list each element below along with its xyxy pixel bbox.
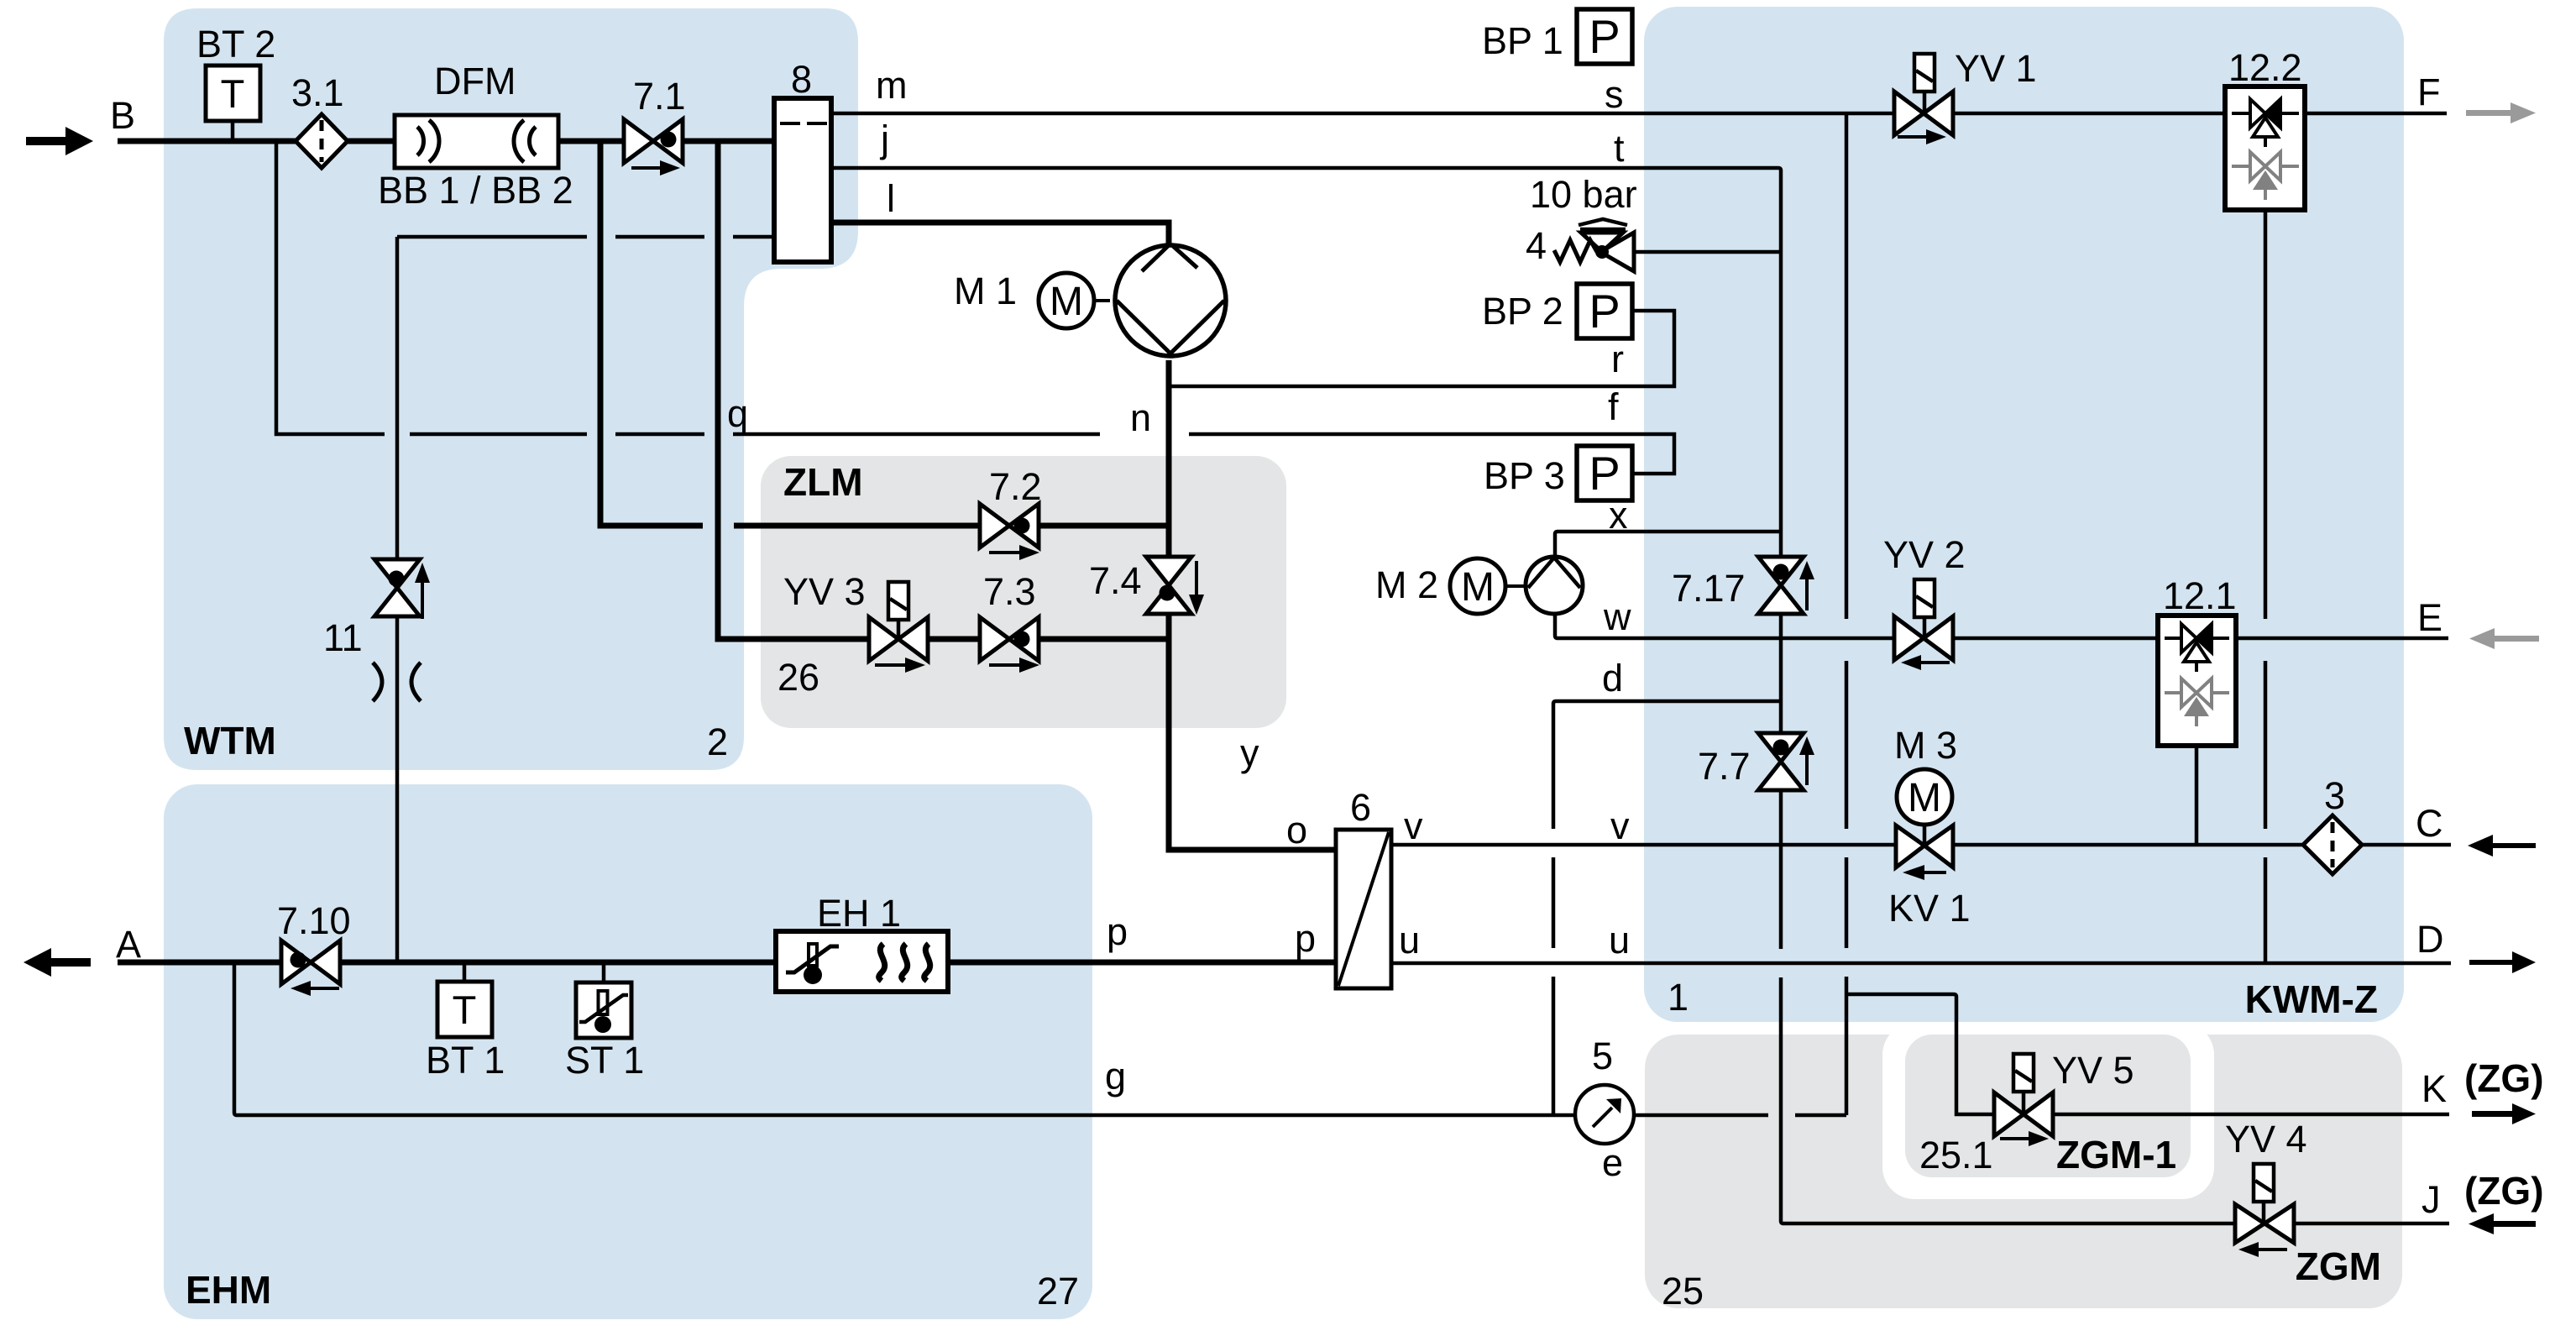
svg-text:7.17: 7.17 (1672, 567, 1746, 610)
wire r line pump tap to BP2 (1169, 311, 1674, 386)
svg-text:EH 1: EH 1 (817, 892, 901, 935)
label K (2422, 1067, 2447, 1110)
svg-text:WTM: WTM (184, 719, 276, 762)
wire x loop top line (pump M2 to t-branch) (1555, 532, 1781, 558)
label r (1611, 338, 1624, 380)
svg-text:y: y (1240, 731, 1259, 774)
label 25 (1662, 1270, 1704, 1312)
svg-text:F: F (2417, 71, 2441, 113)
svg-text:q: q (727, 392, 748, 435)
label ST 1 (565, 1039, 644, 1082)
valve 7.7 (1758, 733, 1814, 790)
svg-text:BP 3: BP 3 (1484, 454, 1565, 497)
wire 12.2 stem down to D line (2264, 210, 2268, 963)
wire vertical branch after 7.1 (thick) with corner to YV3 line (718, 141, 1169, 639)
label u right (1609, 919, 1630, 961)
solenoid valve YV 4 (2235, 1164, 2294, 1257)
label q (727, 392, 748, 435)
wire d line (loop to 7.7) (1556, 699, 1781, 704)
label 11 (323, 616, 363, 659)
label p (1295, 917, 1316, 960)
wire w-E line (pump M2 bottom to E) (1555, 616, 2448, 638)
label YV 3 (783, 570, 866, 613)
port arrow J (2469, 1213, 2536, 1234)
svg-text:T: T (453, 988, 477, 1032)
svg-text:BP 2: BP 2 (1482, 290, 1563, 333)
label M 3 (1894, 724, 1957, 767)
label p left (1107, 910, 1128, 953)
module region ZLM (gray) (761, 456, 1286, 728)
svg-text:K: K (2422, 1067, 2447, 1110)
valve 7.2 (980, 504, 1039, 560)
wire vessel left tap at y282 (397, 235, 774, 239)
svg-text:M 3: M 3 (1894, 724, 1957, 767)
wire ST1 stem (602, 962, 606, 982)
temperature sensor BT 2 (206, 65, 260, 121)
label BP 3 (1484, 454, 1565, 497)
svg-text:B: B (110, 94, 135, 137)
relief valve 4 (10 bar) (1554, 219, 1634, 271)
wire BT2 stem (231, 121, 235, 141)
svg-text:BP 1: BP 1 (1482, 19, 1563, 62)
module region ZGM-1 white moat (1882, 1023, 2214, 1199)
label ZGM (2296, 1244, 2381, 1288)
svg-text:(ZG): (ZG) (2464, 1169, 2544, 1213)
svg-text:ZGM: ZGM (2296, 1244, 2381, 1288)
svg-text:j: j (879, 118, 889, 160)
wire vertical x2121 lower segments to corner J (1781, 977, 2449, 1223)
svg-text:ZLM: ZLM (783, 460, 863, 504)
label d (1602, 657, 1623, 699)
label g (1105, 1055, 1126, 1098)
label 3.1 (291, 71, 344, 114)
valve 7.4 (1146, 557, 1204, 615)
svg-text:DFM: DFM (434, 60, 516, 102)
label 5 (1592, 1035, 1613, 1077)
label YV 4 (2225, 1118, 2307, 1160)
svg-text:7.2: 7.2 (989, 465, 1042, 508)
wire pressure tap q-n-f from main line to BP3 (276, 141, 1674, 474)
temperature sensor ST 1 (576, 982, 631, 1038)
svg-text:n: n (1130, 396, 1151, 439)
svg-text:t: t (1614, 127, 1625, 170)
label o (1286, 809, 1307, 851)
label 1 (1668, 976, 1689, 1019)
filter 3 (2303, 815, 2362, 874)
label DFM (434, 60, 516, 102)
svg-text:v: v (1610, 804, 1630, 847)
svg-text:M 2: M 2 (1375, 563, 1438, 606)
wire m-s-F line (vessel top to F) (831, 112, 2447, 116)
svg-text:YV 5: YV 5 (2052, 1049, 2134, 1092)
label ZG at K (2464, 1056, 2544, 1100)
wire step from x2199 over to YV5 and K (1846, 994, 2449, 1114)
svg-text:m: m (876, 64, 908, 107)
svg-text:BT 1: BT 1 (426, 1039, 505, 1082)
valve 7.1 (624, 119, 683, 176)
svg-text:l: l (887, 177, 895, 220)
port arrow A (24, 948, 91, 977)
module region ZGM (gray) (1645, 1035, 2402, 1308)
svg-text:BB 1 / BB 2: BB 1 / BB 2 (378, 169, 573, 212)
wire u-D line (HX to D) (1391, 961, 2451, 966)
svg-text:BT 2: BT 2 (196, 23, 275, 65)
svg-text:7.7: 7.7 (1698, 745, 1751, 788)
svg-text:2: 2 (707, 720, 728, 763)
port arrow F (gray) (2466, 102, 2536, 123)
svg-text:11: 11 (323, 616, 363, 659)
valve 11 (374, 559, 430, 619)
svg-text:7.4: 7.4 (1089, 559, 1142, 602)
svg-text:M: M (1461, 565, 1495, 610)
svg-text:u: u (1399, 919, 1420, 961)
valve 7.3 (980, 617, 1039, 673)
svg-text:d: d (1602, 657, 1623, 699)
svg-text:v: v (1404, 804, 1423, 847)
pressure sensor BP 1 (1577, 9, 1632, 64)
label 7.4 (1089, 559, 1142, 602)
label B (110, 94, 135, 137)
label e (1602, 1141, 1623, 1184)
label 3 (2324, 774, 2345, 817)
svg-text:25: 25 (1662, 1270, 1704, 1312)
svg-text:YV 2: YV 2 (1883, 533, 1966, 576)
label KWM-Z (2245, 977, 2378, 1021)
svg-text:M: M (1050, 280, 1083, 324)
svg-text:12.1: 12.1 (2163, 574, 2237, 617)
label y (1240, 731, 1259, 774)
label YV 2 (1883, 533, 1966, 576)
svg-text:KV 1: KV 1 (1888, 887, 1971, 930)
svg-text:YV 1: YV 1 (1955, 47, 2037, 90)
label EHM (186, 1268, 271, 1312)
svg-text:1: 1 (1668, 976, 1689, 1019)
pump M 2 (1526, 557, 1583, 614)
svg-text:J: J (2422, 1178, 2441, 1221)
pressure sensor BP 3 (1577, 446, 1632, 500)
label J (2422, 1178, 2441, 1221)
svg-text:ST 1: ST 1 (565, 1039, 644, 1082)
port arrow C (2468, 835, 2536, 857)
label n (1130, 396, 1151, 439)
label A (116, 923, 141, 966)
label 7.2 (989, 465, 1042, 508)
wire BT1 stem (463, 962, 467, 982)
label WTM (184, 719, 276, 762)
label M 1 (954, 270, 1017, 312)
svg-text:3: 3 (2324, 774, 2345, 817)
pressure sensor BP 2 (1577, 284, 1632, 338)
solenoid valve YV 5 (1994, 1054, 2053, 1146)
label v right (1610, 804, 1630, 847)
label f (1608, 385, 1619, 428)
label BP 1 (1482, 19, 1563, 62)
wire main line B (thick) (118, 139, 774, 144)
wire g-e line (EHM drain to gauge 5) (234, 962, 1846, 1115)
svg-text:r: r (1611, 338, 1624, 380)
label YV 1 (1955, 47, 2037, 90)
label v left (1404, 804, 1423, 847)
label 7.10 (277, 899, 351, 942)
label 12.2 (2228, 46, 2302, 89)
solenoid valve YV 2 (1894, 579, 1953, 670)
svg-text:M: M (1908, 776, 1941, 820)
svg-text:w: w (1603, 595, 1631, 638)
svg-text:YV 4: YV 4 (2225, 1118, 2307, 1160)
label ZG at J (2464, 1169, 2544, 1213)
svg-text:12.2: 12.2 (2228, 46, 2302, 89)
svg-text:f: f (1608, 385, 1619, 428)
label 8 (791, 58, 812, 101)
label 7.17 (1672, 567, 1746, 610)
label 7.1 (633, 75, 686, 118)
motor M 2 (1450, 558, 1527, 614)
svg-text:E: E (2417, 596, 2442, 639)
label D (2416, 918, 2444, 961)
label BT 2 (196, 23, 275, 65)
heat exchanger 6 (1336, 830, 1391, 988)
module region ZGM-1 (gray) (1905, 1035, 2191, 1177)
label BP 2 (1482, 290, 1563, 333)
port arrow B (26, 127, 93, 155)
label 7.3 (983, 570, 1036, 613)
svg-text:YV 3: YV 3 (783, 570, 866, 613)
label M 2 (1375, 563, 1438, 606)
label x (1609, 494, 1628, 537)
module region KWM-Z (blue) (1644, 7, 2404, 1022)
port arrow K (2472, 1103, 2536, 1124)
svg-text:u: u (1609, 919, 1630, 961)
port arrow D (2469, 951, 2536, 973)
backflow preventer 12.2 (2225, 86, 2305, 210)
svg-text:g: g (1105, 1055, 1126, 1098)
valve 7.17 (1758, 557, 1814, 614)
label BB 1 / BB 2 (378, 169, 573, 212)
heater EH 1 (776, 931, 948, 992)
temperature sensor BT 1 (437, 982, 492, 1037)
orifice below valve 11 (373, 663, 421, 701)
filter 3.1 (296, 114, 348, 168)
svg-text:D: D (2416, 918, 2444, 961)
label j (879, 118, 889, 160)
svg-text:M 1: M 1 (954, 270, 1017, 312)
label 4 (1526, 224, 1547, 267)
wire v-C line (HX to C) (1391, 843, 2451, 847)
svg-text:7.1: 7.1 (633, 75, 686, 118)
flow indicator 5 (1575, 1085, 1634, 1144)
svg-text:7.3: 7.3 (983, 570, 1036, 613)
label t (1614, 127, 1625, 170)
motor M 1 (1039, 273, 1110, 328)
svg-text:8: 8 (791, 58, 812, 101)
svg-text:25.1: 25.1 (1919, 1134, 1993, 1176)
wire vessel 8 outlet l to pump M1 (thick) (831, 223, 1169, 245)
vessel 8 (774, 98, 831, 262)
label s (1605, 73, 1624, 116)
svg-text:s: s (1605, 73, 1624, 116)
wire d-g branch vertical x1850 (1553, 701, 1556, 1115)
flow meter DFM / BB 1 / BB 2 (395, 115, 558, 168)
wire vertical branch after DFM (thick) with corner to ZLM 7.2 line (600, 141, 1169, 526)
module region EHM (blue) (164, 784, 1092, 1319)
label u left (1399, 919, 1420, 961)
backflow preventer 12.1 (2158, 616, 2236, 746)
solenoid valve YV 1 (1894, 54, 1953, 144)
label ZGM-1 (2056, 1133, 2176, 1176)
svg-text:5: 5 (1592, 1035, 1613, 1077)
label EH 1 (817, 892, 901, 935)
label BT 1 (426, 1039, 505, 1082)
svg-text:3.1: 3.1 (291, 71, 344, 114)
svg-text:4: 4 (1526, 224, 1547, 267)
svg-text:10 bar: 10 bar (1530, 173, 1637, 216)
solenoid valve YV 3 (869, 582, 928, 673)
label 7.7 (1698, 745, 1751, 788)
wire bypass via valve 11 to A line (395, 237, 400, 962)
label 12.1 (2163, 574, 2237, 617)
label F (2417, 71, 2441, 113)
svg-text:26: 26 (778, 656, 819, 699)
wire j-t line (vessel to right corner) (831, 168, 1781, 949)
label 26 (778, 656, 819, 699)
wire s-branch vertical x2199 (1845, 113, 1849, 1115)
svg-text:7.10: 7.10 (277, 899, 351, 942)
svg-text:KWM-Z: KWM-Z (2245, 977, 2378, 1021)
label C (2416, 802, 2443, 845)
wire relief valve 4 line (1634, 250, 1781, 254)
port arrow E (gray) (2469, 628, 2539, 649)
label l (887, 177, 895, 220)
svg-text:6: 6 (1350, 786, 1371, 829)
svg-text:P: P (1589, 285, 1620, 338)
svg-text:A: A (116, 923, 141, 966)
label w (1603, 595, 1631, 638)
module region WTM (blue) (164, 8, 858, 770)
wire 12.1 stem down to C line (2195, 746, 2199, 845)
svg-text:P: P (1589, 10, 1620, 63)
label 25.1 (1919, 1134, 1993, 1176)
svg-text:T: T (221, 71, 245, 116)
label 6 (1350, 786, 1371, 829)
label E (2417, 596, 2442, 639)
pump M 1 (1115, 245, 1226, 356)
svg-text:x: x (1609, 494, 1628, 537)
label YV 5 (2052, 1049, 2134, 1092)
svg-text:C: C (2416, 802, 2443, 845)
label KV 1 (1888, 887, 1971, 930)
svg-text:ZGM-1: ZGM-1 (2056, 1133, 2176, 1176)
svg-text:(ZG): (ZG) (2464, 1056, 2544, 1100)
svg-text:o: o (1286, 809, 1307, 851)
svg-text:27: 27 (1037, 1270, 1079, 1312)
wire pump M1 down through 7.4 to o and HX 6 (thick) (1169, 360, 1336, 850)
wire A outlet line p (thick) (118, 960, 1336, 966)
svg-text:EHM: EHM (186, 1268, 271, 1312)
label 2 (707, 720, 728, 763)
svg-text:e: e (1602, 1141, 1623, 1184)
label 27 (1037, 1270, 1079, 1312)
motorized valve KV 1 with motor M 3 (1896, 769, 1953, 880)
label 10 bar (1530, 173, 1637, 216)
svg-text:p: p (1107, 910, 1128, 953)
svg-text:P: P (1589, 447, 1620, 500)
label ZLM (783, 460, 863, 504)
svg-text:p: p (1295, 917, 1316, 960)
label m (876, 64, 908, 107)
valve 7.10 (281, 940, 340, 996)
